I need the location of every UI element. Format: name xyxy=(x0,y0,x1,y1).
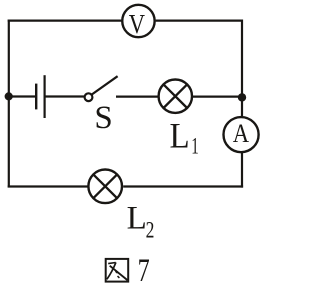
svg-text:2: 2 xyxy=(146,218,155,243)
voltmeter V xyxy=(122,5,154,40)
wire: switch to lamp L1 xyxy=(116,95,158,97)
lamp L1 xyxy=(159,80,192,113)
wire: right branch, lower (ammeter to bottom-right corner) xyxy=(241,153,243,188)
wire: top, left segment (corner to voltmeter) xyxy=(8,20,122,22)
label S xyxy=(94,100,112,136)
lamp L2 xyxy=(88,170,122,204)
wire: bottom, left segment (corner to lamp L2) xyxy=(8,185,88,187)
wire: left junction to battery xyxy=(9,95,36,97)
battery (cell): short plate (negative) xyxy=(35,84,37,110)
label L2 xyxy=(127,201,155,244)
svg-text:1: 1 xyxy=(191,133,198,159)
label L1 xyxy=(170,115,199,160)
wire: left branch (top-left corner to bottom-left corner) xyxy=(8,20,10,188)
wire: lamp L1 to right junction xyxy=(193,95,242,97)
wire: top, right segment (voltmeter to top-right corner) xyxy=(156,20,243,22)
svg-text:S: S xyxy=(94,100,112,136)
svg-text:V: V xyxy=(129,10,145,40)
svg-text:7: 7 xyxy=(138,253,150,289)
node: right junction xyxy=(238,93,246,101)
caption: 图 7 (figure label) xyxy=(106,253,150,289)
node: left junction xyxy=(5,92,13,100)
switch S (pivot + open blade) xyxy=(85,76,118,101)
wire: right branch, upper (corner to ammeter) xyxy=(241,20,243,117)
ammeter A xyxy=(224,117,259,152)
svg-text:A: A xyxy=(233,120,250,149)
wire: battery to switch xyxy=(45,95,85,97)
svg-text:L: L xyxy=(170,115,190,156)
svg-text:L: L xyxy=(127,201,147,237)
wire: bottom, right segment (corner to lamp L2) xyxy=(123,185,243,187)
battery (cell): long plate (positive) xyxy=(43,75,45,118)
